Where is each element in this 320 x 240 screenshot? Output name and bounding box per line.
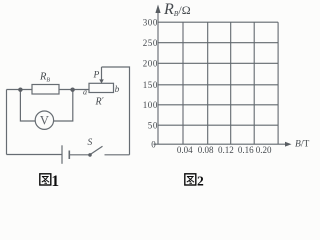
wire: top route from slider to right edge bbox=[102, 67, 130, 155]
svg-text:100: 100 bbox=[143, 100, 158, 110]
gridline 300 bbox=[158, 21, 278, 23]
y axis arrowhead bbox=[155, 5, 160, 14]
svg-text:V: V bbox=[40, 114, 49, 128]
gridline 200 bbox=[158, 62, 278, 64]
resistor RB box bbox=[32, 85, 59, 95]
wire: outer left vertical bbox=[6, 90, 8, 155]
y axis bbox=[157, 9, 159, 144]
svg-text:0: 0 bbox=[151, 140, 156, 150]
gridline 0.08 bbox=[207, 22, 209, 144]
caption 图1 (hand-drawn CJK tu) bbox=[40, 174, 51, 185]
gridline 0.12 bbox=[230, 22, 232, 144]
svg-text:0.16: 0.16 bbox=[238, 145, 254, 155]
svg-text:1: 1 bbox=[51, 173, 59, 189]
battery short plate bbox=[68, 151, 70, 160]
gridline 0.04 bbox=[182, 22, 184, 144]
wire: voltmeter branch right rise bbox=[54, 90, 73, 122]
rheostat R' box bbox=[89, 83, 114, 92]
wire: switch to right corner bbox=[105, 154, 130, 156]
svg-text:2: 2 bbox=[197, 174, 204, 189]
svg-text:50: 50 bbox=[148, 120, 158, 130]
switch pivot node bbox=[88, 153, 92, 157]
svg-text:b: b bbox=[115, 84, 120, 94]
junction node at RB right / a bbox=[70, 88, 74, 92]
gridline 50 bbox=[158, 124, 278, 126]
switch blade bbox=[90, 146, 103, 155]
svg-text:P: P bbox=[93, 70, 100, 80]
wire: voltmeter branch left drop bbox=[20, 90, 35, 122]
svg-text:0.12: 0.12 bbox=[218, 145, 234, 155]
svg-text:200: 200 bbox=[143, 59, 158, 69]
svg-text:S: S bbox=[88, 138, 93, 148]
junction node at RB left bbox=[18, 88, 22, 92]
wire: top-left horizontal to resistor RB bbox=[7, 89, 33, 91]
voltmeter V circle bbox=[35, 111, 53, 129]
svg-text:250: 250 bbox=[143, 38, 158, 48]
wire: battery to switch bbox=[69, 154, 90, 156]
wire: resistor to rheostat bbox=[59, 89, 89, 91]
battery long plate bbox=[61, 145, 63, 164]
svg-text:B/T: B/T bbox=[295, 140, 309, 150]
wire: slider vertical bbox=[101, 67, 103, 80]
gridline 100 bbox=[158, 104, 278, 106]
svg-text:a: a bbox=[83, 88, 87, 97]
gridline 0.20 bbox=[277, 22, 279, 144]
svg-text:0.20: 0.20 bbox=[256, 145, 272, 155]
svg-text:150: 150 bbox=[143, 80, 158, 90]
caption 图2 (hand-drawn CJK tu) bbox=[185, 174, 196, 185]
gridline 0.16 bbox=[253, 22, 255, 144]
svg-text:0.04: 0.04 bbox=[177, 145, 193, 155]
x axis bbox=[154, 143, 290, 145]
wire: bottom left horizontal to battery bbox=[7, 154, 63, 156]
svg-text:0.08: 0.08 bbox=[198, 145, 214, 155]
x axis arrowhead bbox=[285, 142, 292, 147]
svg-text:300: 300 bbox=[143, 17, 158, 27]
gridline 150 bbox=[158, 84, 278, 86]
slider arrow P head bbox=[99, 79, 104, 83]
gridline 250 bbox=[158, 42, 278, 44]
